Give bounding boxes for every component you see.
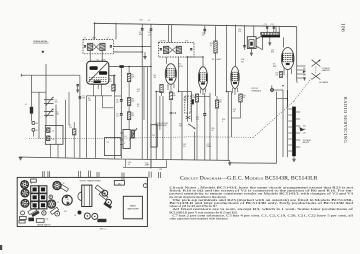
ground right end [228,160,231,165]
svg-text:N78: N78 [273,66,276,68]
wire vol right rail [190,92,192,122]
svg-text:C22: C22 [271,50,274,52]
wire lower bus tick b [150,159,152,167]
wire heater drop [276,92,278,164]
wire V5 pins [284,69,292,107]
wire IFT1 HT drop [115,23,117,40]
valve V3 DH77 detector [198,59,221,89]
svg-text:C21: C21 [264,24,267,26]
tilted capacitor top layout [60,184,69,191]
capacitor C14 [202,26,207,37]
wire anode rail V3 [227,92,229,161]
wire V3 top cap [202,57,204,67]
svg-text:C22: C22 [271,24,274,26]
label R20 [140,20,151,22]
label gram position [156,123,169,127]
layout lead pair b [48,171,50,177]
wire heater bottom [231,162,277,164]
wire pickup rail [282,90,284,157]
voltage selector taps [297,66,306,83]
wire V3 link drop [186,57,188,122]
arrow AVC [169,112,176,114]
svg-text:R20: R20 [140,20,143,22]
wire IFT1 to V1 grid [89,51,91,62]
svg-text:AC MAINS: AC MAINS [319,81,328,84]
svg-text:-01: -01 [116,116,119,118]
svg-text:22k: 22k [69,127,72,129]
svg-text:C13: C13 [185,41,188,43]
svg-text:LS: LS [74,215,76,217]
wire IFT2 secondary down [178,57,180,92]
svg-text:AERIAL EARTH: AERIAL EARTH [37,223,51,226]
wire osc rail x69 [68,92,70,125]
tilted capacitor e layout [31,210,39,217]
svg-text:IFT1: IFT1 [93,38,97,40]
svg-text:210: 210 [303,133,306,135]
svg-text:C26: C26 [159,169,162,171]
small circle c layout [55,211,60,216]
svg-text:6: 6 [222,121,223,123]
wire V1 grid link [96,96,114,158]
tilted capacitor C27 layout [95,185,104,193]
ground mains transformer [292,156,295,161]
IF can grid layout [31,186,47,209]
wire det rail b [209,93,211,160]
wire lower bus segment [123,166,166,168]
resistor R13 [215,96,221,160]
wire IFT1 secondary to V1 [101,51,103,62]
svg-text:150: 150 [173,95,176,97]
wire rail x231 [231,92,233,138]
svg-text:470: 470 [241,61,244,63]
svg-text:C24: C24 [66,201,69,203]
resistor R1 osc branch [69,122,76,158]
dashed gang coupling mid-left [120,137,186,138]
resistor R8 V2 cathode [160,85,163,97]
wire horizontal link2 y915 [226,91,231,93]
label group det [183,98,236,148]
svg-text:240: 240 [303,75,306,77]
variable capacitor C2 oscillator [44,108,59,117]
capacitor C5 padder branch [79,83,86,158]
wire horizontal link y915 [179,91,192,93]
wire aerial top [21,74,80,76]
svg-text:47k: 47k [196,119,199,121]
dashed gang to switch [294,78,312,102]
svg-text:390: 390 [242,97,245,99]
wire bus to IFT2 b [171,25,173,43]
valve V1 X79 frequency changer [87,59,109,84]
wire V1 anode drop [93,23,95,39]
svg-text:-01: -01 [148,34,151,36]
capacitor C3 [139,24,144,36]
mains transformer T2 [288,107,311,157]
svg-text:GRAM SW: GRAM SW [322,69,331,72]
layout lead pair c [97,172,99,177]
svg-text:V3: V3 [31,202,33,204]
fuse box 4A layout [114,181,124,186]
svg-text:2.2: 2.2 [137,106,139,108]
wire vol left rail [181,92,183,161]
IF transformer IFT2 [159,41,195,57]
valve holder V1 layout [21,181,29,189]
svg-text:L2: L2 [52,131,54,133]
capacitor C6a trimmer [76,75,80,92]
svg-text:C31: C31 [64,211,67,213]
wire det rail a [204,93,206,113]
wire vol bottom [194,132,196,160]
valve holder V3 layout [21,200,29,208]
resistor R14 V4 cathode [232,94,246,118]
resistor R7 [127,112,134,129]
svg-text:106: 106 [340,23,346,32]
svg-text:100: 100 [184,100,187,102]
wire lower bus tick a [125,159,127,167]
wire OT to V5 [283,37,285,47]
svg-text:170: 170 [276,74,279,76]
terminal outline rect layout [36,219,44,223]
terminal E [32,128,38,136]
svg-text:47k: 47k [109,81,112,83]
ground voltage taps [303,77,306,79]
valve holder V4 layout [53,182,61,190]
svg-text:470: 470 [238,31,241,33]
svg-text:C23: C23 [66,199,69,201]
wire link y915 left [156,91,161,93]
mains transformer layout [123,196,142,219]
grommet dark circle layout [74,211,82,217]
wire heater link [277,98,288,100]
wire V2 pins [168,84,174,92]
dial lamp circle layout [41,208,46,215]
wire mid rail e [155,92,157,160]
svg-text:S1: S1 [107,142,109,144]
svg-text:230: 230 [303,129,306,131]
svg-text:MODEL BC5143L: MODEL BC5143L [156,123,169,125]
svg-text:15k: 15k [132,101,135,103]
svg-text:TERMINALS: TERMINALS [251,89,262,92]
label C25 [128,162,162,171]
svg-text:SUPPLY TRANSFORMER: SUPPLY TRANSFORMER [80,179,102,182]
wire det box bottom link [195,95,210,97]
wire OT primary b [278,26,280,32]
resistor R2a under V1 [109,75,115,91]
wire IFT2 to V2 top [165,57,167,64]
resistor R21 HT feed [210,26,217,96]
svg-text:1k: 1k [210,45,212,47]
svg-text:200: 200 [303,68,306,70]
supply transformer layout [78,179,102,206]
svg-text:C6: C6 [84,38,86,40]
ground left end [19,157,22,159]
wire mid rail g [159,96,161,130]
dashed gang diagonal [254,101,295,137]
valve V2 W79 IF amplifier [165,64,182,85]
variable capacitor C1 tuning [44,97,57,106]
svg-text:-05: -05 [202,35,205,37]
wire link y96 [115,95,122,97]
valve holder V5 layout [48,200,56,208]
wire bus drop x226 [225,25,227,92]
svg-text:W79: W79 [179,66,183,68]
chassis layout outline [17,177,147,226]
wire right HT drop [296,27,298,81]
resistor R11 V3 [191,94,199,160]
frame aerial label [33,40,48,52]
wire mid rail b2 [143,67,145,121]
svg-text:V2: V2 [31,192,33,194]
valve V5 N78 output [273,48,294,70]
svg-text:C7: C7 [107,38,109,40]
svg-text:C11: C11 [152,135,155,137]
label to radio gram [319,67,330,84]
wire osc top link [31,91,46,93]
svg-text:V1: V1 [31,183,33,185]
valve V4 driver [231,59,244,88]
capacitor C21 tone [266,26,268,33]
wire HT+ top bus [95,23,297,26]
terminal pair d to chassis [159,172,161,178]
terminal A [31,122,38,126]
svg-text:other capacitors have standard: other capacitors have standard wide tole… [169,217,228,221]
ground IFT1 return [143,52,146,59]
switch unit box [105,138,122,156]
svg-text:ADJUST: ADJUST [303,141,310,144]
wire lower bus tick c [165,160,167,167]
svg-text:C12 IFT2: C12 IFT2 [159,41,167,43]
electrolytic can C23 C24 layout [62,195,72,205]
svg-text:L6: L6 [125,136,127,138]
svg-text:C4: C4 [148,20,150,22]
wire OT primary a [275,26,277,32]
wire oscillator left rail [45,64,47,125]
capacitor C20 speaker feed [243,25,245,50]
small resistor block layout [28,218,34,222]
trimmer circle right edge layout [143,184,147,188]
resistor R9 [169,92,175,159]
loudspeaker LS1 [247,36,274,56]
tilted capacitor f layout [50,207,58,214]
svg-text:R18: R18 [271,51,274,53]
twin circles bottom layout [84,213,98,219]
svg-text:CIRCUIT DIAGRAM—G.E.C. MODELS: CIRCUIT DIAGRAM—G.E.C. MODELS BC5143R, B… [180,176,319,181]
wire IFT1 return [114,51,143,53]
capacitor C8 screen [116,67,123,114]
svg-text:SCREEN FEED: SCREEN FEED [156,125,168,127]
wire V3 pins [201,89,206,96]
svg-text:150: 150 [88,100,91,102]
small box top left layout [31,179,37,182]
wire mid rail d [146,67,148,160]
wire mid rail b [141,34,143,160]
coil L7 with trimmer arrow [130,128,138,141]
layout tiny labels [31,183,67,221]
wire V1 pins [94,84,102,96]
small circle d layout [21,211,25,215]
svg-text:-05: -05 [183,146,186,148]
potentiometer R10 volume [179,96,196,129]
valve holder V2 layout [21,189,29,197]
resistor R5 chain [127,67,134,98]
wire mid rail f [162,96,164,159]
layout lead pair d [122,173,124,181]
pick-up sockets [251,86,283,93]
output transformer T1 [261,24,280,38]
layout lead pair a [43,171,45,177]
svg-text:L1: L1 [25,104,27,106]
wire V4 anode from bus [234,25,236,67]
svg-text:V4: V4 [63,183,65,185]
svg-text:KEY C.L.: KEY C.L. [100,229,107,231]
svg-text:250: 250 [303,125,306,127]
small circle a layout [102,190,108,196]
wire chassis bus [19,157,230,160]
svg-text:DH77: DH77 [217,59,222,61]
fuse holder left layout [19,217,26,224]
switch S2 mains on-off [312,59,321,66]
choke R4 inline [109,65,151,68]
label tap voltages [303,68,306,77]
dark block bottom layout [97,219,106,222]
terminal tick aerial [20,74,22,77]
component block C11 pack [151,125,157,147]
svg-text:220: 220 [303,71,306,73]
resistor R17 V5 cathode [276,72,283,78]
switch S1 waveband [120,130,130,149]
tilted dark bar layout [103,202,112,209]
svg-text:MAINS: MAINS [130,205,137,208]
wire V1 screen branch [109,75,116,159]
tilted capacitor C28 layout [99,192,108,200]
junction dots [94,23,288,100]
terminal pair b2 to chassis [89,171,91,178]
svg-text:100: 100 [219,101,222,103]
capacitor C9 [116,114,123,159]
dashed gang coupling left [29,137,120,139]
svg-text:V5: V5 [57,202,59,204]
svg-text:RADIO SERVICING: RADIO SERVICING [343,97,348,144]
small circle b layout [106,199,112,205]
dashed gang line middle [186,136,254,139]
capacitor C22 tone [273,26,275,33]
svg-text:-05: -05 [116,101,119,103]
wire oscillator right rail [64,100,66,158]
wire mid rail c [150,34,152,169]
svg-text:R17: R17 [276,73,279,75]
coil L1 aerial coupling [25,75,33,121]
wire AVC line from IFT1 [114,46,151,48]
svg-text:47k: 47k [132,77,135,79]
wire V4 pins [233,88,238,95]
svg-text:-01: -01 [233,111,236,113]
switch S3 voltage selector [312,67,321,80]
wire V1 cathode bus [86,96,112,158]
IF transformer IFT1 [83,38,114,54]
svg-text:1k: 1k [212,130,214,132]
svg-text:50: 50 [128,164,130,166]
wire osc rail x39 [38,92,40,139]
svg-text:500: 500 [56,113,59,115]
terminal pair c to chassis [149,172,151,178]
wire V3 top link [187,56,203,58]
wire bus to speaker transformer [253,25,255,36]
ground OT secondary [268,37,271,45]
svg-text:300: 300 [139,34,142,36]
circuit notes text block [169,186,354,221]
svg-text:L4: L4 [52,139,54,141]
svg-text:560: 560 [82,98,85,100]
capacitor C4 [148,24,152,36]
svg-text:-02: -02 [137,91,140,93]
coil box L2 L4 oscillator [45,125,63,157]
capacitor C17 electrolytic [203,114,212,160]
terminal pair b to chassis [79,171,81,177]
resistor R6 [127,98,134,112]
wire PSU rail a [286,90,288,157]
svg-text:C30: C30 [46,219,49,221]
svg-text:500: 500 [55,102,58,104]
trimmer small circle layout [49,195,53,199]
label group mid [137,75,156,108]
wire gang mid rail [55,105,57,145]
wire bus to IFT2 a [168,25,170,43]
scan edge artifact [0,245,2,250]
tilted capacitor d layout [28,207,37,214]
